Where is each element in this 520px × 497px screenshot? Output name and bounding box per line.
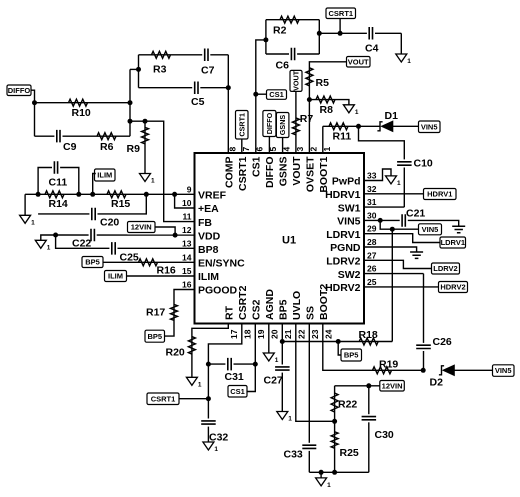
wire VDD row: [56, 234, 195, 236]
wire CSRT1 label stub: [179, 398, 208, 400]
svg-text:14: 14: [182, 252, 192, 262]
wire R7 leg to pin 3: [295, 91, 297, 153]
svg-text:CS1: CS1: [251, 156, 263, 177]
wire LDRV2: [364, 260, 432, 268]
wire R8 row: [309, 100, 349, 105]
label R17: [146, 307, 165, 319]
wire R3 net left vertical: [138, 55, 140, 88]
capacitor C21: [400, 214, 408, 227]
label R20: [166, 347, 185, 359]
ground C32: [203, 442, 219, 453]
wire BP5 pin21 vertical: [281, 324, 283, 412]
wire C5 branch: [139, 87, 229, 89]
resistor R11: [329, 123, 348, 130]
svg-text:GSNS: GSNS: [278, 157, 290, 187]
wire VIN5 vertical: [391, 229, 393, 341]
ground AGND: [263, 353, 279, 364]
node C31 left: [206, 362, 211, 367]
label D2: [430, 377, 444, 389]
label D1: [385, 110, 399, 122]
svg-text:C21: C21: [406, 208, 425, 220]
svg-text:PGND: PGND: [330, 242, 361, 254]
node R3 net left: [136, 67, 141, 72]
svg-text:VREF: VREF: [198, 190, 227, 202]
wire SW2 C26 vertical: [423, 274, 425, 371]
label C31: [225, 371, 244, 383]
resistor R7: [292, 118, 299, 135]
label C4: [365, 43, 379, 55]
svg-text:12VIN: 12VIN: [382, 381, 403, 390]
label C7: [201, 65, 215, 77]
svg-text:R9: R9: [127, 143, 141, 155]
svg-text:R15: R15: [111, 198, 130, 210]
svg-text:LDRV2: LDRV2: [326, 256, 360, 268]
wire R3 C7 branch: [139, 54, 229, 56]
wire FB net to pin 11: [130, 121, 195, 221]
label C5: [191, 96, 205, 108]
svg-text:C31: C31: [225, 371, 244, 383]
svg-text:22: 22: [296, 329, 306, 339]
resistor R20: [188, 337, 195, 355]
label C32: [209, 432, 228, 444]
svg-text:C10: C10: [414, 158, 433, 170]
svg-text:VDD: VDD: [198, 230, 221, 242]
svg-text:1: 1: [151, 178, 155, 185]
label C6: [276, 60, 290, 72]
node C11 right: [76, 192, 81, 197]
net label DIFFO pin5: [263, 111, 276, 137]
wire +EA to pin 10: [175, 194, 195, 208]
svg-text:CSRT1: CSRT1: [237, 113, 246, 137]
svg-text:RT: RT: [224, 305, 236, 320]
ground VDD node: [35, 240, 51, 251]
svg-text:R14: R14: [49, 198, 68, 210]
svg-text:ILIM: ILIM: [198, 271, 219, 283]
svg-text:BP5: BP5: [278, 299, 290, 320]
svg-text:R19: R19: [379, 358, 398, 370]
wire CS1 label stub: [256, 93, 267, 95]
svg-text:32: 32: [367, 184, 377, 194]
svg-text:C4: C4: [365, 43, 379, 55]
svg-text:17: 17: [229, 329, 239, 339]
svg-text:27: 27: [367, 250, 377, 260]
wire C10 chain to SW1: [359, 126, 405, 207]
capacitor C22: [89, 229, 97, 241]
node R2 net left: [263, 37, 268, 42]
svg-text:C27: C27: [264, 375, 283, 387]
resistor R16: [139, 259, 158, 266]
wire pin 5 stub: [268, 137, 270, 154]
ground bottom rail: [316, 478, 332, 489]
svg-text:21: 21: [283, 329, 293, 339]
svg-text:VIN5: VIN5: [495, 366, 512, 375]
resistor R22: [331, 393, 338, 412]
wire COMP vertical to pin 8: [227, 55, 229, 153]
net label HDRV2: [439, 282, 468, 293]
chassis ground C21: [452, 226, 465, 232]
node C31 right: [253, 362, 258, 367]
net label GSNS pin4: [276, 113, 289, 138]
svg-text:25: 25: [367, 277, 377, 287]
svg-text:18: 18: [242, 329, 252, 339]
node VIN5 pin30: [378, 218, 383, 223]
node COMP: [226, 85, 231, 90]
net label 12VIN left: [128, 222, 156, 233]
svg-text:R8: R8: [320, 104, 334, 116]
svg-text:1: 1: [31, 219, 35, 226]
capacitor C9: [54, 130, 62, 143]
svg-text:1: 1: [397, 180, 401, 187]
svg-text:COMP: COMP: [224, 157, 236, 189]
svg-text:C33: C33: [284, 449, 303, 461]
net label VIN5 D2: [493, 365, 515, 377]
wire PwPd: [364, 169, 391, 181]
svg-text:1: 1: [198, 381, 202, 388]
svg-text:R7: R7: [300, 113, 314, 125]
resistor R10: [69, 99, 88, 106]
node C11 left: [36, 192, 41, 197]
svg-text:SW1: SW1: [338, 202, 361, 214]
svg-text:C7: C7: [201, 65, 215, 77]
svg-text:ILIM: ILIM: [108, 272, 123, 281]
svg-text:28: 28: [367, 237, 377, 247]
node R25 bottom: [332, 470, 337, 475]
node R9 top: [143, 119, 148, 124]
svg-text:BP5: BP5: [85, 258, 100, 267]
svg-text:VIN5: VIN5: [337, 216, 361, 228]
wire UVLO to divider: [296, 324, 335, 422]
ground R9: [140, 174, 156, 185]
label C22: [72, 238, 91, 250]
resistor R8: [316, 96, 335, 103]
wire ILIM stub: [93, 174, 96, 195]
svg-text:C5: C5: [191, 96, 205, 108]
svg-text:1: 1: [288, 416, 292, 423]
wire vertical left net: [129, 69, 131, 136]
capacitor C10: [397, 159, 412, 167]
label C25: [120, 252, 139, 264]
resistor R9: [142, 127, 149, 144]
label C33: [284, 449, 303, 461]
wire CS2 net: [247, 324, 255, 392]
net label VIN5 D1: [419, 121, 441, 133]
svg-text:31: 31: [367, 197, 377, 207]
label R3: [153, 64, 167, 76]
wire R11 row: [323, 125, 380, 127]
diode D2: [439, 365, 455, 376]
resistor R25: [331, 432, 338, 449]
capacitor C11: [52, 161, 60, 174]
svg-text:15: 15: [182, 266, 192, 276]
svg-text:VIN5: VIN5: [422, 225, 439, 234]
ground C4: [396, 54, 412, 65]
label C30: [375, 429, 394, 441]
label R18: [359, 329, 378, 341]
capacitor C25: [109, 242, 117, 255]
label C11: [49, 177, 68, 189]
node CSRT1 label: [206, 396, 211, 401]
svg-text:D1: D1: [385, 110, 399, 122]
label R15: [111, 198, 130, 210]
svg-text:SW2: SW2: [338, 269, 361, 281]
capacitor C32: [201, 419, 216, 427]
resistor R5: [306, 68, 313, 86]
node OVSET: [307, 97, 312, 102]
chassis ground PGND: [410, 252, 423, 258]
wire C31 row: [208, 363, 255, 365]
wire pin 1 BOOT1: [322, 126, 324, 153]
svg-text:7: 7: [241, 147, 251, 152]
capacitor C5: [192, 82, 200, 95]
label R25: [340, 447, 359, 459]
svg-text:OVSET: OVSET: [305, 156, 317, 192]
svg-text:CSRT1: CSRT1: [329, 9, 354, 18]
net label LDRV2: [432, 263, 460, 274]
resistor R15: [107, 191, 126, 198]
label R11: [333, 131, 352, 143]
resistor R17: [171, 304, 178, 320]
capacitor C20: [89, 208, 97, 221]
node CSRT1 stub: [338, 31, 343, 36]
svg-text:12VIN: 12VIN: [131, 223, 152, 232]
node R22 R25: [332, 419, 337, 424]
svg-text:C6: C6: [276, 60, 290, 72]
svg-text:BP8: BP8: [198, 244, 219, 256]
svg-text:UVLO: UVLO: [291, 291, 303, 320]
svg-text:CSRT1: CSRT1: [151, 394, 176, 403]
capacitor C26: [416, 343, 431, 351]
svg-text:C26: C26: [433, 336, 452, 348]
wire R2 branch: [266, 19, 319, 21]
wire CS1 net vertical to pin 6: [256, 40, 266, 153]
resistor R6: [97, 133, 116, 140]
wire bottom rail: [309, 471, 369, 473]
node D2 C26: [421, 368, 426, 373]
net label CSRT1 top: [326, 8, 356, 19]
node BP5 rail: [280, 339, 285, 344]
svg-text:CS1: CS1: [230, 387, 245, 396]
ground R14: [20, 215, 35, 226]
svg-text:24: 24: [323, 329, 333, 339]
wire SW2: [364, 273, 424, 275]
wire CSRT1 stub: [339, 19, 341, 34]
svg-text:R5: R5: [316, 77, 330, 89]
svg-text:9: 9: [187, 184, 192, 194]
wire BP8 row: [56, 235, 195, 248]
svg-text:HDRV2: HDRV2: [440, 283, 465, 292]
svg-text:33: 33: [367, 171, 377, 181]
wire pin 7 stub: [241, 139, 243, 153]
node R2 net right: [317, 31, 322, 36]
svg-text:CSRT2: CSRT2: [237, 285, 249, 320]
net label CSRT1 pin7: [236, 111, 249, 140]
svg-text:FB: FB: [198, 217, 212, 229]
svg-text:12: 12: [182, 225, 192, 235]
svg-text:R22: R22: [338, 399, 357, 411]
node ground stem: [319, 470, 324, 475]
svg-text:C9: C9: [63, 141, 77, 153]
wire C6 branch: [266, 53, 319, 55]
svg-text:U1: U1: [282, 235, 296, 247]
svg-text:R20: R20: [166, 347, 185, 359]
capacitor C6: [289, 48, 297, 60]
node R15 right: [144, 192, 149, 197]
wire R22 leg: [334, 386, 336, 422]
capacitor C4: [367, 27, 375, 40]
svg-text:R3: R3: [153, 64, 167, 76]
svg-text:20: 20: [269, 329, 279, 339]
node R10 right: [128, 100, 133, 105]
node 12VIN: [173, 233, 178, 238]
node ILIM stub: [90, 192, 95, 197]
wire SS C33: [308, 324, 310, 473]
resistor R19: [373, 367, 392, 374]
wire to ground VDD: [41, 235, 56, 240]
svg-text:R18: R18: [359, 329, 378, 341]
svg-text:8: 8: [228, 147, 238, 152]
wire R25 leg: [334, 421, 336, 472]
label R16: [157, 265, 176, 277]
net label VOUT pin3: [290, 70, 302, 91]
label R14: [49, 198, 68, 210]
wire HDRV2: [364, 286, 439, 288]
node VDD left: [53, 233, 58, 238]
label C10: [414, 158, 433, 170]
wire R9 leg: [144, 121, 146, 173]
wire VIN5 label row: [380, 220, 418, 229]
svg-text:DIFFO: DIFFO: [8, 86, 31, 95]
wire BP5 hook: [338, 342, 341, 356]
net label VOUT: [347, 57, 371, 68]
svg-text:R16: R16: [157, 265, 176, 277]
wire C11 loop: [38, 168, 79, 195]
svg-text:LDRV1: LDRV1: [441, 238, 465, 247]
net label BP5 R17: [145, 330, 165, 342]
net label BP5 EN: [82, 257, 103, 268]
wire AGND: [268, 324, 270, 354]
svg-text:VIN5: VIN5: [421, 122, 438, 131]
net label BP5 R18: [341, 349, 362, 361]
svg-text:HDRV2: HDRV2: [325, 282, 361, 294]
wire D2 anode: [455, 369, 493, 371]
svg-text:VOUT: VOUT: [348, 58, 369, 67]
wire CSRT2 net: [208, 324, 241, 443]
wire C4 to ground: [400, 33, 402, 54]
label C26: [433, 336, 452, 348]
svg-text:R6: R6: [100, 141, 114, 153]
svg-text:GSNS: GSNS: [278, 115, 287, 136]
capacitor C31: [225, 358, 233, 371]
svg-text:R17: R17: [146, 307, 165, 319]
svg-text:CS2: CS2: [251, 299, 263, 320]
node C30 top: [366, 383, 371, 388]
net label CS1: [267, 90, 287, 100]
resistor R3: [152, 51, 171, 58]
wire 12VIN stub: [155, 227, 175, 235]
wire EN/SYNC row: [103, 261, 195, 263]
svg-text:10: 10: [182, 198, 192, 208]
net label DIFFO: [7, 85, 31, 96]
net label LDRV1: [440, 237, 466, 248]
label C9: [63, 141, 77, 153]
svg-text:23: 23: [310, 329, 320, 339]
svg-text:VOUT: VOUT: [292, 70, 301, 91]
node +EA: [172, 192, 177, 197]
wire RT R20: [192, 324, 228, 378]
net label CS1 bottom: [228, 386, 247, 398]
wire ground stem: [320, 472, 322, 478]
capacitor C30: [362, 414, 377, 422]
svg-text:HDRV1: HDRV1: [427, 190, 452, 199]
capacitor C33: [302, 443, 316, 451]
node BP5 label hook: [336, 339, 341, 344]
op-amp U1 controller IC: [182, 147, 377, 340]
svg-text:1: 1: [355, 109, 359, 116]
wire BP5 rail R18: [282, 341, 392, 343]
svg-text:CS1: CS1: [269, 90, 284, 99]
svg-text:BP5: BP5: [344, 351, 359, 360]
net label ILIM row15: [105, 271, 127, 282]
svg-text:LDRV2: LDRV2: [433, 264, 457, 273]
svg-text:PGOOD: PGOOD: [198, 285, 238, 297]
wire pin 4 stub: [282, 138, 284, 154]
wire BOOT2 R19: [323, 324, 423, 371]
label R8: [320, 104, 334, 116]
wire VOUT R5 to pin 2: [309, 62, 346, 153]
svg-text:DIFFO: DIFFO: [264, 157, 276, 189]
ground R20: [186, 377, 202, 388]
wire ILIM row: [127, 275, 195, 277]
svg-text:+EA: +EA: [198, 203, 219, 215]
svg-text:VOUT: VOUT: [291, 156, 303, 186]
svg-text:26: 26: [367, 264, 377, 274]
label C21: [406, 208, 425, 220]
node FB branch: [128, 119, 133, 124]
net label ILIM upper: [95, 169, 116, 181]
wire R2 net left vertical: [265, 20, 267, 54]
node CS1: [253, 92, 258, 97]
wire PGOOD R17: [164, 290, 194, 337]
node VIN5 vertical: [390, 227, 395, 232]
wire R10 row: [35, 102, 131, 104]
label R22: [338, 399, 357, 411]
wire C30 leg: [368, 386, 370, 473]
resistor R2: [280, 16, 299, 23]
diode D1: [377, 121, 393, 132]
svg-text:1: 1: [322, 147, 332, 152]
svg-text:C30: C30: [375, 429, 394, 441]
svg-text:BP5: BP5: [148, 332, 163, 341]
wire jog to R3 net: [130, 68, 139, 70]
capacitor C7: [202, 49, 210, 62]
wire LDRV1: [364, 234, 440, 243]
svg-text:HDRV1: HDRV1: [325, 189, 361, 201]
svg-text:29: 29: [367, 224, 377, 234]
svg-text:EN/SYNC: EN/SYNC: [198, 258, 245, 270]
wire VREF row: [25, 193, 194, 195]
svg-text:AGND: AGND: [264, 289, 276, 320]
label R10: [72, 107, 91, 119]
wire D1 anode: [393, 125, 419, 127]
label R2: [273, 25, 287, 37]
net label 12VIN bottom: [380, 381, 405, 392]
svg-text:13: 13: [182, 239, 192, 249]
label R6: [100, 141, 114, 153]
svg-text:30: 30: [367, 210, 377, 220]
svg-text:19: 19: [256, 329, 266, 339]
svg-text:CSRT1: CSRT1: [237, 156, 249, 191]
wire CSRT1 C4 row: [319, 32, 401, 34]
